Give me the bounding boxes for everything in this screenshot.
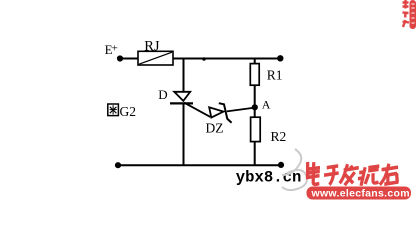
watermark red bar www.elecfans.com (307, 187, 412, 200)
svg-text:A: A (262, 98, 271, 112)
wire R column top lead (254, 59, 256, 64)
wire bottom rail (116, 164, 283, 166)
wire R2 lower lead (254, 142, 256, 166)
wire D branch lower lead (183, 103, 185, 166)
svg-text:R1: R1 (267, 68, 283, 83)
watermark red logo characters 电子发烧友 (305, 162, 400, 186)
wire node A to R2 (254, 110, 256, 118)
svg-text:D: D (158, 87, 167, 102)
wire D branch upper lead (183, 59, 185, 93)
wire R1 to node A (254, 85, 256, 105)
svg-text:R2: R2 (271, 129, 287, 144)
svg-text:+: + (112, 42, 118, 54)
diode D (170, 92, 193, 104)
char 子 (323, 166, 339, 185)
node A dot (252, 104, 258, 110)
char 烧 (357, 166, 380, 186)
watermark top-right red vertical logo (403, 0, 416, 29)
terminal top-right dot (277, 55, 283, 61)
wire top rail (122, 58, 282, 60)
char 友 (380, 164, 400, 185)
watermark gray swirl (282, 149, 307, 190)
terminal E+ dot (117, 55, 123, 61)
terminal bottom-right dot (278, 162, 284, 168)
wire DZ to node A (227, 108, 255, 112)
terminal bottom-left dot (115, 162, 121, 168)
resistor R1 (250, 64, 259, 86)
resistor R2 (251, 117, 261, 141)
svg-text:www.elecfans.com: www.elecfans.com (311, 188, 410, 200)
zener diode DZ (209, 103, 231, 123)
resistor RJ (138, 51, 173, 65)
wire diagonal D to DZ (184, 103, 210, 117)
label 图G2 (figure label) (108, 104, 119, 116)
svg-text:G2: G2 (120, 104, 137, 119)
svg-text:DZ: DZ (206, 121, 224, 136)
char 电 (306, 162, 322, 184)
svg-text:RJ: RJ (144, 39, 160, 55)
junction dot on top rail (202, 57, 206, 61)
char 发 (339, 164, 359, 185)
